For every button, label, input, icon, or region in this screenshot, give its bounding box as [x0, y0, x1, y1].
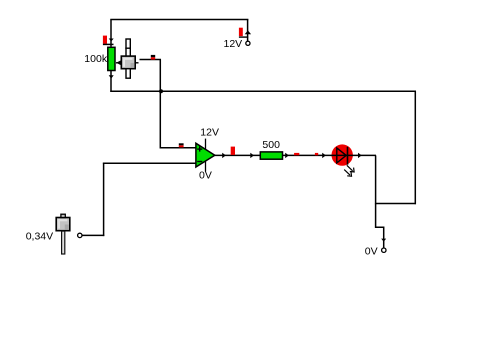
current indicator red blob on output wire — [231, 147, 235, 155]
probe 0.34V top nub — [61, 214, 65, 217]
wire: bottom right horizontal — [376, 203, 416, 205]
svg-text:12V: 12V — [200, 126, 219, 138]
svg-text:0V: 0V — [365, 245, 378, 257]
wire: op-amp output horizontal — [215, 154, 377, 156]
wire: top horizontal bus — [110, 19, 248, 21]
op-amp U1 triangle body — [196, 143, 215, 167]
probe 0.34V body box — [56, 218, 70, 231]
wire: op-amp plus input horizontal — [160, 147, 196, 149]
wire: probe terminal horizontal — [82, 234, 104, 236]
probe terminal circle — [78, 233, 82, 237]
LED D1 wire through body — [332, 154, 354, 156]
wire: wiper output horizontal — [140, 59, 162, 61]
0V terminal circle — [382, 248, 386, 252]
junction node on bus — [159, 89, 163, 93]
current indicator flat red after resistor — [294, 153, 299, 155]
wire: right vertical — [414, 91, 416, 204]
svg-text:0,34V: 0,34V — [26, 230, 53, 242]
wire: op-amp minus input horizontal — [103, 162, 196, 164]
12V terminal circle — [246, 41, 250, 45]
current indicator on wiper wire (black over red) — [151, 57, 155, 59]
resistor R2 500 body — [260, 152, 282, 159]
svg-text:500: 500 — [262, 139, 280, 151]
op-amp plus sign — [197, 148, 202, 150]
svg-text:12V: 12V — [224, 38, 243, 50]
current indicator on op-amp plus input wire (black over red) — [179, 145, 184, 147]
current arrow: out of potentiometer bottom — [109, 75, 114, 78]
current arrow: before LED — [322, 153, 326, 158]
current arrow: up into 12V wire — [245, 30, 251, 34]
current indicator red blob at 12V terminal — [239, 28, 243, 36]
wire: 12V terminal drop — [247, 20, 249, 42]
current arrow: down into 0V terminal — [381, 239, 386, 242]
potentiometer R1 track body 100k — [108, 47, 115, 70]
wire: LED output drop vertical — [375, 155, 377, 204]
LED D1 light arrow 2 — [344, 170, 350, 176]
current arrow: before resistor — [250, 153, 254, 158]
current arrow: op-amp output — [222, 153, 226, 158]
wire: probe riser vertical — [103, 163, 105, 237]
LED D1 red body circle — [332, 144, 353, 165]
wire: bottom horizontal bus — [110, 90, 416, 92]
op-amp U1 power rail vertical line — [205, 139, 207, 172]
svg-text:0V: 0V — [199, 170, 212, 182]
wire: potentiometer bottom vertical — [110, 71, 112, 93]
current indicator red blob at potentiometer top — [103, 36, 107, 44]
wiper left pin with arrow to track — [116, 62, 121, 64]
op-amp minus sign — [197, 161, 202, 163]
probe 0.34V stem — [62, 231, 65, 254]
LED D1 cathode bar — [347, 147, 349, 165]
current indicator flat red before LED — [315, 153, 318, 155]
current indicator tick below red blob — [103, 43, 114, 45]
potentiometer wiper screw shaft top — [126, 39, 130, 48]
LED D1 diode triangle — [337, 148, 346, 163]
wiper right pin — [135, 62, 138, 64]
potentiometer wiper box — [121, 56, 135, 69]
current arrow: into potentiometer top — [109, 39, 114, 42]
LED D1 light arrow 1 — [347, 165, 353, 171]
current arrow: after resistor — [285, 153, 289, 158]
svg-text:100k: 100k — [84, 53, 108, 65]
current arrow: after LED — [358, 153, 362, 158]
potentiometer wiper screw shaft bottom — [126, 69, 130, 79]
wire: potentiometer top vertical — [110, 20, 112, 47]
wire: jog to 0V terminal — [376, 204, 384, 248]
wire: wiper to op-amp vertical — [159, 60, 161, 149]
